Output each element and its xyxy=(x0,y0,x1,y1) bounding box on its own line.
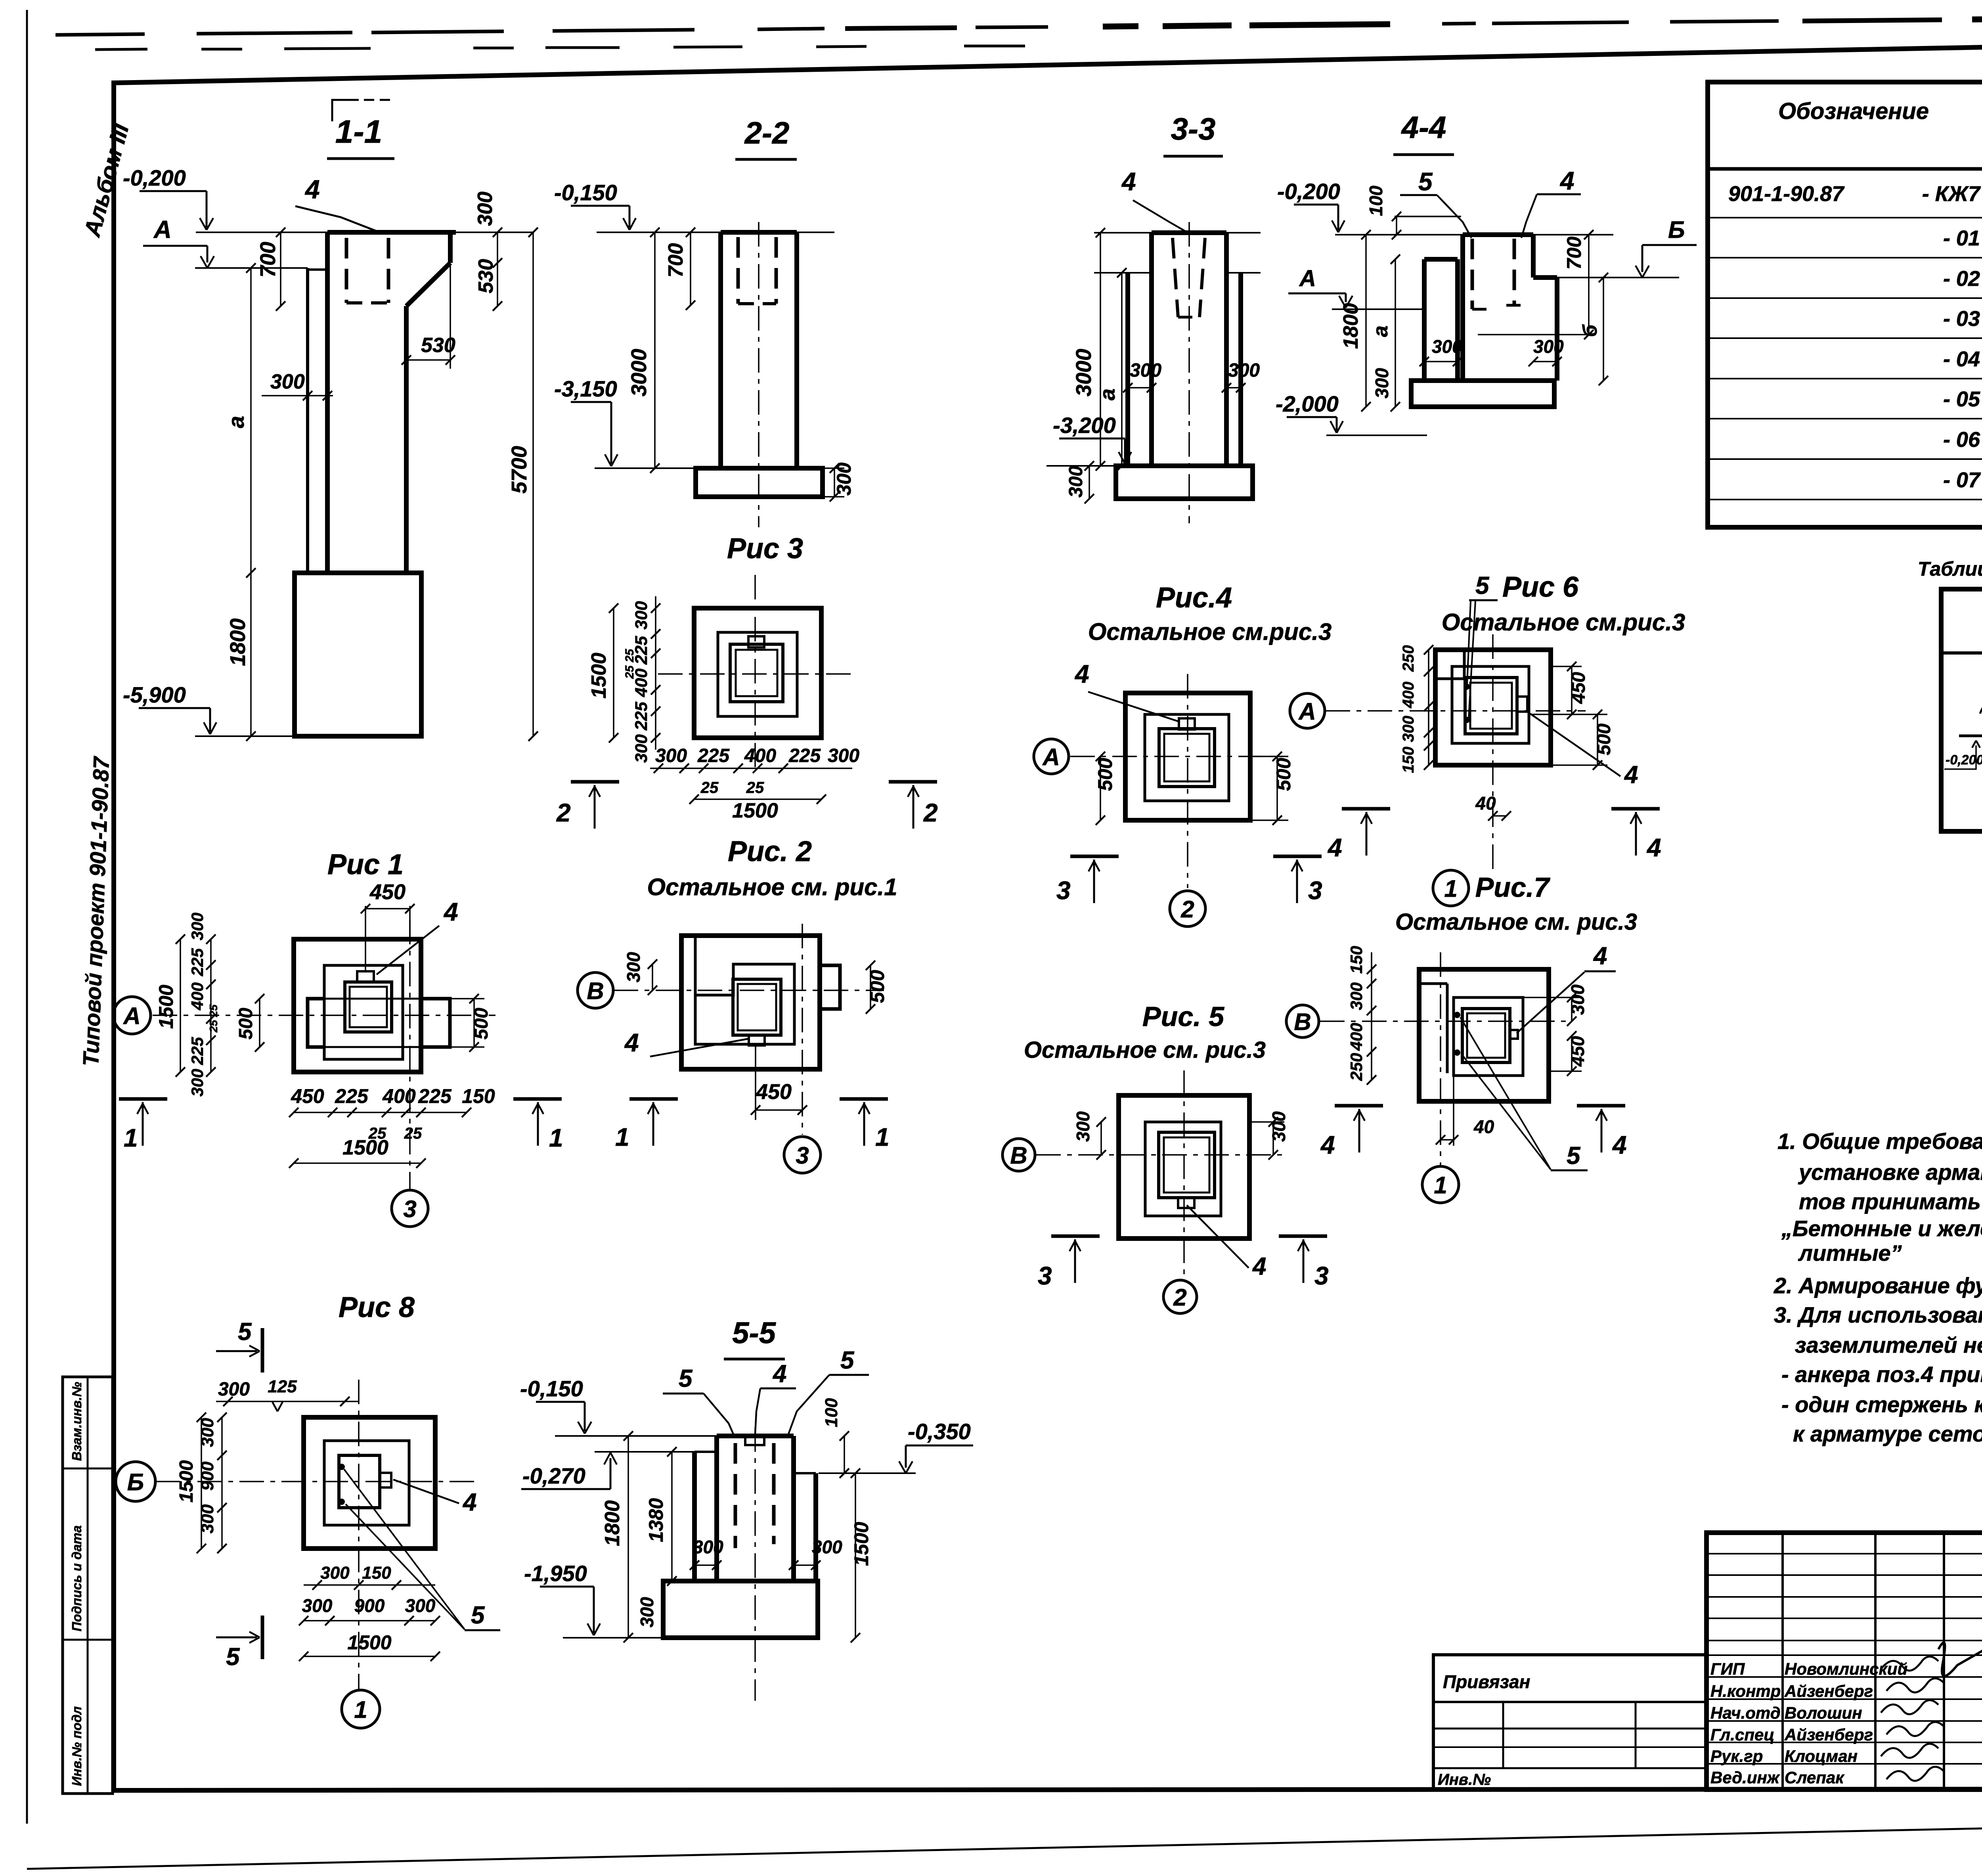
title block frame xyxy=(1707,1533,1982,1790)
svg-text:700: 700 xyxy=(664,243,687,278)
svg-text:300: 300 xyxy=(1372,368,1392,398)
svg-text:-0,200: -0,200 xyxy=(123,165,186,190)
svg-text:1500: 1500 xyxy=(155,985,177,1029)
svg-text:3000: 3000 xyxy=(627,349,651,396)
datum line A (section 1-1) xyxy=(195,267,308,269)
dims left 1800 1380 (5-5) xyxy=(628,1436,629,1638)
plan fig2 vertical axis xyxy=(802,924,803,1135)
svg-text:4: 4 xyxy=(1593,942,1607,970)
svg-text:225: 225 xyxy=(188,1037,207,1065)
svg-text:Волошин: Волошин xyxy=(1785,1704,1862,1722)
svg-text:150: 150 xyxy=(462,1085,495,1107)
svg-text:300: 300 xyxy=(1228,360,1260,381)
svg-text:ГИП: ГИП xyxy=(1710,1660,1745,1678)
pier 5-5 xyxy=(717,1434,794,1438)
svg-text:-3,200: -3,200 xyxy=(1053,413,1116,438)
svg-text:литные”: литные” xyxy=(1798,1240,1902,1265)
axis (5-5) xyxy=(754,1427,756,1701)
axis circle A (fig4) xyxy=(1034,739,1069,774)
plan fig1 beam channel lines xyxy=(308,998,450,1000)
ledge line right (4-4) xyxy=(1534,277,1679,278)
fig2 section marks 1 xyxy=(629,1097,678,1101)
svg-text:1: 1 xyxy=(875,1123,890,1151)
anchor bolt dashed (2-2) xyxy=(737,237,740,304)
svg-text:225: 225 xyxy=(632,701,651,731)
plan fig7 anchor plate right xyxy=(1510,1030,1518,1039)
bolt bottom thin line (4-4) xyxy=(1478,334,1596,335)
anchor bolts dashed (4-4) xyxy=(1471,239,1474,309)
svg-text:4: 4 xyxy=(772,1360,786,1388)
plan fig1 column double square xyxy=(345,982,392,1032)
footing section 1-1 xyxy=(295,573,421,736)
svg-text:Рис 1: Рис 1 xyxy=(327,849,404,881)
svg-text:- 01: - 01 xyxy=(1943,226,1980,250)
svg-text:500: 500 xyxy=(1094,758,1116,791)
svg-text:1: 1 xyxy=(354,1696,367,1723)
fig1 dim 500 left xyxy=(259,999,260,1047)
svg-text:Рис 3: Рис 3 xyxy=(727,533,803,565)
footing 2-2 xyxy=(696,468,823,497)
svg-text:300: 300 xyxy=(1066,466,1087,498)
svg-text:Айзенберг: Айзенберг xyxy=(1784,1725,1873,1744)
svg-text:250: 250 xyxy=(1347,1053,1366,1081)
svg-text:225: 225 xyxy=(188,948,207,976)
svg-text:Рис 6: Рис 6 xyxy=(1502,571,1579,603)
plan fig4 outer square xyxy=(1125,693,1250,820)
svg-text:Остальное см. рис.3: Остальное см. рис.3 xyxy=(1395,909,1637,935)
svg-text:500: 500 xyxy=(1272,758,1295,791)
svg-text:2: 2 xyxy=(1180,896,1194,923)
axis circle 1 (fig8) xyxy=(342,1690,380,1728)
svg-text:Привязан: Привязан xyxy=(1443,1671,1530,1692)
svg-text:5: 5 xyxy=(840,1347,855,1374)
datum top (4-4) xyxy=(1335,234,1463,235)
svg-text:1500: 1500 xyxy=(732,799,778,822)
load table frame xyxy=(1941,589,1982,831)
right wall (5-5) xyxy=(813,1473,818,1581)
svg-text:25 25: 25 25 xyxy=(623,649,636,679)
svg-text:4: 4 xyxy=(304,174,320,204)
svg-text:150: 150 xyxy=(1400,747,1417,773)
plan fig3 inner square xyxy=(718,632,797,716)
svg-text:Инв.№: Инв.№ xyxy=(1438,1771,1491,1788)
svg-text:4: 4 xyxy=(1624,761,1638,789)
svg-text:А: А xyxy=(1042,744,1060,770)
svg-text:В: В xyxy=(1294,1009,1311,1035)
svg-text:225: 225 xyxy=(418,1085,452,1107)
plan fig2 outer square xyxy=(681,936,820,1069)
svg-text:1. Общие требования к прои: 1. Общие требования к производству работ… xyxy=(1777,1129,1982,1154)
plan fig7 outer square xyxy=(1419,969,1549,1101)
axis circle A (fig1) xyxy=(113,997,151,1034)
svg-text:Рук.гр: Рук.гр xyxy=(1710,1747,1763,1765)
svg-text:300: 300 xyxy=(1347,982,1366,1010)
svg-text:5700: 5700 xyxy=(507,446,531,494)
svg-text:225: 225 xyxy=(335,1085,369,1107)
anchor bolt dashed (section 1-1) xyxy=(345,238,348,303)
dim 100 right (5-5) xyxy=(844,1436,845,1473)
svg-text:450: 450 xyxy=(756,1080,792,1104)
svg-text:Рис.7: Рис.7 xyxy=(1475,872,1551,903)
footing bottom extension (1-1) xyxy=(195,735,295,737)
svg-text:3-3: 3-3 xyxy=(1171,111,1216,146)
column section 1-1 outline xyxy=(327,230,456,235)
scan edge left xyxy=(26,10,28,1824)
fig8 axes xyxy=(155,1481,476,1482)
svg-text:- 02: - 02 xyxy=(1943,267,1980,291)
svg-text:Инв.№ подл: Инв.№ подл xyxy=(69,1706,84,1786)
svg-text:300: 300 xyxy=(1268,1111,1289,1142)
plan fig3 bottom dims xyxy=(650,768,852,769)
fig4 section marks 3 xyxy=(1070,855,1119,858)
svg-text:Слепак: Слепак xyxy=(1785,1768,1844,1787)
footing 5-5 xyxy=(663,1581,818,1638)
svg-text:3: 3 xyxy=(1308,876,1322,905)
svg-text:5: 5 xyxy=(471,1602,485,1629)
svg-text:Взам.инв.№: Взам.инв.№ xyxy=(69,1382,84,1461)
dim 1500 right (5-5) xyxy=(855,1473,856,1638)
load table header bottom xyxy=(1941,651,1982,655)
footing 3-3 xyxy=(1116,466,1253,499)
svg-text:300: 300 xyxy=(1073,1111,1093,1142)
svg-text:1: 1 xyxy=(615,1123,629,1151)
axis circle A (fig6) xyxy=(1290,693,1325,728)
plan fig3 overall 1500 left xyxy=(613,608,614,738)
plan fig3 column double square xyxy=(730,644,783,702)
svg-text:Рис. 5: Рис. 5 xyxy=(1142,1001,1224,1032)
svg-text:300: 300 xyxy=(623,952,644,982)
svg-text:5: 5 xyxy=(1567,1142,1581,1170)
svg-text:тов принимать по указаниям: тов принимать по указаниям СНиП III - 15… xyxy=(1799,1189,1982,1214)
svg-text:300: 300 xyxy=(320,1563,350,1583)
plan fig5 anchor plate bottom xyxy=(1178,1198,1194,1208)
svg-text:300: 300 xyxy=(833,462,855,496)
svg-text:4: 4 xyxy=(1320,1131,1335,1159)
plan fig3 outer square xyxy=(694,608,821,738)
plan fig7 column double square xyxy=(1462,1009,1510,1062)
svg-text:4: 4 xyxy=(1252,1253,1266,1280)
dim 300 and 530 right (1-1) xyxy=(497,232,498,306)
svg-text:Б: Б xyxy=(1668,216,1685,243)
dim a + 1800 (1-1) xyxy=(250,268,252,736)
svg-text:2. Армирование фундаментов: 2. Армирование фундаментов см лист КЖ8 xyxy=(1773,1273,1982,1298)
axis circle 1 (fig6) xyxy=(1433,870,1469,906)
column 2-2 xyxy=(721,230,797,235)
svg-text:450: 450 xyxy=(369,880,406,904)
fig5 section marks 3 xyxy=(1051,1235,1100,1238)
svg-text:Айзенберг: Айзенберг xyxy=(1784,1682,1873,1700)
svg-text:4-4: 4-4 xyxy=(1401,110,1446,145)
plan fig6 anchor plate right xyxy=(1517,697,1527,712)
svg-text:-0,350: -0,350 xyxy=(908,1419,971,1444)
svg-text:- КЖ7: - КЖ7 xyxy=(1922,182,1981,206)
fig7 left dim stack xyxy=(1371,952,1372,1080)
svg-text:4: 4 xyxy=(1074,660,1089,688)
svg-text:Остальное см. рис.3: Остальное см. рис.3 xyxy=(1024,1037,1266,1063)
svg-text:1800: 1800 xyxy=(1339,303,1362,349)
svg-text:1500: 1500 xyxy=(342,1136,388,1159)
plan fig1 inner square xyxy=(324,965,403,1059)
svg-text:Рис.4: Рис.4 xyxy=(1156,582,1232,614)
spec table row lines xyxy=(1708,217,1982,218)
plan fig3 anchor plate xyxy=(748,636,764,647)
svg-text:450: 450 xyxy=(1568,672,1589,704)
fig6 section marks 4 xyxy=(1342,807,1390,811)
svg-text:300: 300 xyxy=(812,1537,842,1557)
svg-text:700: 700 xyxy=(1563,236,1585,270)
fig6 left dim stack xyxy=(1428,650,1429,765)
svg-text:500: 500 xyxy=(235,1008,256,1039)
svg-text:1500: 1500 xyxy=(587,653,610,699)
plan fig6 outer square xyxy=(1435,650,1551,765)
signatures squiggles xyxy=(1881,1656,1938,1670)
datum top line (2-2) xyxy=(597,232,721,233)
dim 3000 (2-2) xyxy=(654,232,656,468)
svg-text:300: 300 xyxy=(1567,984,1588,1015)
svg-text:400: 400 xyxy=(1347,1023,1366,1051)
svg-text:300: 300 xyxy=(188,1069,207,1097)
svg-text:- 06: - 06 xyxy=(1943,428,1980,452)
fig6 anchor dots xyxy=(1464,683,1470,690)
svg-text:-3,150: -3,150 xyxy=(554,376,617,401)
fig1 bottom dims xyxy=(294,1112,467,1113)
svg-text:150: 150 xyxy=(1347,946,1366,974)
svg-text:-0,150: -0,150 xyxy=(554,180,617,205)
svg-text:А: А xyxy=(122,1003,140,1029)
footing 4-4 xyxy=(1411,381,1554,407)
dim 700 (2-2) xyxy=(690,232,691,305)
svg-text:3000: 3000 xyxy=(1072,349,1096,396)
svg-text:установке арматуры и бетони: установке арматуры и бетонированию фунда… xyxy=(1798,1160,1982,1185)
fig8 anchor dots xyxy=(339,1464,345,1470)
plan fig2 right beam stub xyxy=(820,965,840,1009)
axis circle В (fig5) xyxy=(1002,1139,1035,1171)
plan fig6 step line xyxy=(1463,650,1466,679)
title block left grid verticals xyxy=(1781,1533,1784,1790)
svg-text:а: а xyxy=(224,416,249,428)
svg-text:400: 400 xyxy=(744,745,776,766)
scan top dark dashes xyxy=(55,34,145,35)
svg-text:3: 3 xyxy=(1056,876,1071,905)
svg-text:1800: 1800 xyxy=(226,618,250,666)
svg-text:4: 4 xyxy=(1646,833,1661,862)
svg-text:300: 300 xyxy=(1533,336,1564,357)
svg-text:- анкера поз.4 приварить: - анкера поз.4 приварить к арматуре сето… xyxy=(1781,1362,1982,1387)
svg-text:4: 4 xyxy=(1612,1131,1627,1159)
svg-text:450: 450 xyxy=(291,1085,324,1107)
svg-text:Таблица нагрузок на фундаме: Таблица нагрузок на фундаменты xyxy=(1918,558,1982,580)
scan edge bottom xyxy=(27,1817,1982,1869)
privyazan box xyxy=(1433,1655,1707,1790)
svg-text:Гл.спец: Гл.спец xyxy=(1710,1725,1774,1744)
svg-text:100: 100 xyxy=(822,1398,841,1427)
svg-text:500: 500 xyxy=(1594,724,1615,755)
plan fig1 anchor plate top xyxy=(357,971,374,982)
svg-text:1500: 1500 xyxy=(850,1522,872,1566)
plan fig8 outer square xyxy=(304,1417,435,1549)
svg-text:- 05: - 05 xyxy=(1943,387,1980,411)
svg-text:1500: 1500 xyxy=(176,1460,197,1503)
svg-text:300: 300 xyxy=(188,913,207,940)
plan fig4 anchor plate top xyxy=(1179,718,1195,729)
svg-text:3: 3 xyxy=(403,1196,416,1222)
fig7 anchor dots xyxy=(1454,1012,1460,1018)
fig1 overall 1500 left xyxy=(180,939,181,1072)
fig8 bottom dims xyxy=(304,1584,435,1586)
svg-text:25: 25 xyxy=(700,779,719,796)
plan fig8 inner lines xyxy=(324,1441,409,1525)
svg-text:-1,950: -1,950 xyxy=(524,1561,587,1586)
plan fig7 step line xyxy=(1446,984,1449,1073)
svg-text:225: 225 xyxy=(788,745,821,766)
axis circle 2 (fig4) xyxy=(1170,891,1205,927)
svg-text:300: 300 xyxy=(474,191,497,226)
svg-text:1800: 1800 xyxy=(601,1500,624,1546)
svg-text:500: 500 xyxy=(866,970,888,1003)
axis circle 2 (fig5) xyxy=(1163,1280,1197,1313)
svg-text:1: 1 xyxy=(124,1124,138,1152)
svg-text:А: А xyxy=(153,216,172,243)
svg-text:400: 400 xyxy=(382,1085,416,1107)
svg-text:225: 225 xyxy=(697,745,730,766)
svg-text:1380: 1380 xyxy=(645,1498,667,1542)
column 3-3 xyxy=(1149,233,1154,466)
dim 5700 (1-1) xyxy=(532,232,534,736)
svg-text:450: 450 xyxy=(1567,1036,1588,1067)
plan fig6 inner square xyxy=(1452,666,1529,743)
plan fig1 left beam stub xyxy=(308,999,324,1047)
svg-text:2: 2 xyxy=(1173,1284,1186,1311)
fig5 axes xyxy=(1036,1154,1284,1156)
fig8 left dim stack xyxy=(221,1417,223,1549)
svg-text:-0,270: -0,270 xyxy=(522,1463,585,1488)
section mark 2 left xyxy=(571,780,619,784)
fig1 section marks 1 xyxy=(119,1097,167,1101)
anchor sleeve dashed (3-3) xyxy=(1173,238,1178,317)
svg-text:300: 300 xyxy=(632,601,651,630)
svg-text:300: 300 xyxy=(270,370,305,393)
datum top (3-3) xyxy=(1094,232,1152,234)
svg-text:1-1: 1-1 xyxy=(335,114,383,150)
svg-text:Рис 8: Рис 8 xyxy=(339,1292,415,1323)
svg-text:Вед.инж: Вед.инж xyxy=(1710,1768,1780,1787)
plan fig5 column double square xyxy=(1159,1132,1215,1198)
svg-text:Остальное см.рис.3: Остальное см.рис.3 xyxy=(1088,618,1332,645)
plan fig2 inner step square xyxy=(695,936,794,1044)
svg-text:500: 500 xyxy=(471,1008,492,1039)
svg-text:4: 4 xyxy=(1559,167,1575,195)
svg-text:-2,000: -2,000 xyxy=(1276,391,1339,416)
svg-text:-0,150: -0,150 xyxy=(520,1376,583,1401)
axis circle 3 (fig2) xyxy=(784,1137,821,1173)
svg-text:Подпись и дата: Подпись и дата xyxy=(69,1526,84,1632)
fig6 axes xyxy=(1326,710,1586,712)
svg-text:300: 300 xyxy=(1400,716,1417,742)
left sidebar boxes xyxy=(63,1377,113,1794)
fig7 section marks 4 xyxy=(1335,1104,1383,1108)
dim 3000 + a (3-3) xyxy=(1100,233,1101,466)
title block left grid rows xyxy=(1707,1553,1982,1554)
svg-text:заземлителей необходимо:: заземлителей необходимо: xyxy=(1795,1332,1982,1357)
svg-text:901-1-90.87: 901-1-90.87 xyxy=(1728,182,1845,206)
svg-text:300: 300 xyxy=(1130,360,1161,381)
wall faces 3-3 xyxy=(1125,273,1130,466)
svg-text:Нач.отд: Нач.отд xyxy=(1710,1704,1781,1722)
svg-text:25: 25 xyxy=(404,1125,422,1142)
axis (3-3) xyxy=(1188,222,1190,523)
plan fig4 column double square xyxy=(1159,729,1215,787)
svg-text:А: А xyxy=(1298,698,1316,725)
svg-text:150: 150 xyxy=(362,1563,391,1583)
plan fig2 anchor plate bottom xyxy=(749,1035,765,1045)
svg-text:к арматуре сеток поз.1.: к арматуре сеток поз.1. xyxy=(1793,1421,1982,1446)
svg-text:2-2: 2-2 xyxy=(744,115,790,150)
svg-text:530: 530 xyxy=(474,259,497,293)
svg-text:а: а xyxy=(1369,325,1392,337)
axis circle В (fig7) xyxy=(1286,1005,1319,1038)
fig7 axes xyxy=(1320,1020,1566,1022)
svg-text:Н.контр: Н.контр xyxy=(1710,1682,1781,1700)
svg-text:300: 300 xyxy=(218,1379,250,1400)
dim 300 footing (3-3) xyxy=(1089,466,1090,499)
svg-text:100: 100 xyxy=(1366,186,1386,216)
svg-text:б: б xyxy=(1579,324,1601,337)
bolts dashed (5-5) xyxy=(734,1443,737,1548)
axis circle 3 (fig1) xyxy=(392,1190,428,1227)
datum top line (5-5) xyxy=(555,1435,717,1437)
svg-text:3. Для использования фундам: 3. Для использования фундаментов в качес… xyxy=(1774,1302,1982,1327)
plan fig1 right beam stub xyxy=(421,999,450,1047)
plan fig8 column xyxy=(339,1455,380,1508)
column axis (2-2) xyxy=(758,222,760,527)
svg-text:300: 300 xyxy=(302,1595,333,1616)
dim 300 footing (2-2) xyxy=(834,468,835,497)
plan fig2 column double square xyxy=(733,979,781,1035)
svg-text:250: 250 xyxy=(1400,645,1417,672)
left wall (5-5) xyxy=(692,1452,697,1581)
dim a (4-4) xyxy=(1395,259,1396,407)
axis circle В (fig2) xyxy=(578,972,613,1008)
svg-text:5-5: 5-5 xyxy=(732,1316,777,1350)
svg-text:4: 4 xyxy=(1327,833,1342,862)
svg-text:40: 40 xyxy=(1473,1116,1494,1137)
svg-text:-0,200: -0,200 xyxy=(1277,179,1340,204)
fig7 right dims 300 450 xyxy=(1571,997,1573,1021)
plan fig1 outer square xyxy=(294,939,421,1072)
left wall 4-4 xyxy=(1422,259,1427,381)
svg-text:400: 400 xyxy=(1400,681,1417,708)
svg-text:Остальное см.рис.3: Остальное см.рис.3 xyxy=(1442,609,1685,636)
specification table frame xyxy=(1708,82,1982,527)
svg-text:Б: Б xyxy=(127,1469,144,1495)
svg-text:5: 5 xyxy=(226,1643,240,1671)
svg-text:1: 1 xyxy=(1434,1172,1447,1198)
svg-text:300: 300 xyxy=(637,1597,657,1627)
svg-text:а: а xyxy=(1096,389,1119,400)
plan fig4 inner square xyxy=(1145,714,1229,801)
svg-text:900: 900 xyxy=(354,1595,385,1616)
svg-text:25 25: 25 25 xyxy=(207,1005,220,1033)
svg-text:40: 40 xyxy=(1475,793,1496,814)
pier top notch (5-5) xyxy=(745,1436,764,1445)
dim 700 right (4-4) xyxy=(1588,235,1590,335)
dim 700 (1-1) xyxy=(280,232,281,306)
svg-text:700: 700 xyxy=(256,242,280,278)
svg-text:3: 3 xyxy=(1314,1262,1329,1290)
svg-text:400: 400 xyxy=(188,982,207,1011)
dim 1800 (4-4) xyxy=(1365,235,1367,407)
svg-text:-5,900: -5,900 xyxy=(123,682,186,707)
